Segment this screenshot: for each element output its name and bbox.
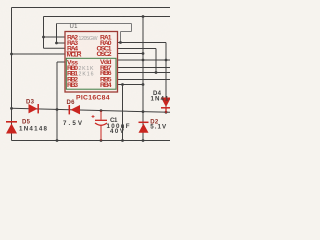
wire vertical x166 RA0 to D4: [165, 43, 167, 113]
junction ground rail at x122: [121, 139, 124, 142]
wire second top horizontal (RA2 net): [44, 16, 171, 18]
junction RA0 net dogleg: [119, 41, 122, 44]
MCLR overbar: [67, 51, 82, 53]
wire vertical x57 Vss to ground rail: [56, 62, 58, 141]
junction mid rail at Vss vertical: [56, 108, 59, 111]
wire RA3 pin: [57, 42, 66, 44]
wire Vss pin: [57, 61, 65, 63]
wire RA2 pin: [44, 36, 66, 38]
capacitor C1 symbol: [92, 111, 108, 141]
junction Vdd net at x166: [165, 59, 168, 62]
junction mid rail at C1: [100, 109, 103, 112]
zener diode D2 symbol: [139, 122, 149, 133]
wire vertical x143 (Vdd net with D2): [142, 17, 144, 141]
IC U1 body PIC16C84: [65, 32, 118, 93]
diode D4 symbol: [161, 98, 171, 114]
wire middle rail through D3 and D6: [12, 108, 171, 112]
paper texture: [0, 0, 170, 150]
junction top net at x143: [142, 15, 145, 18]
junction Vdd net at x143: [142, 59, 145, 62]
junction mid rail at D4 vertical: [165, 111, 168, 114]
wire RB5 pin row: [118, 79, 171, 81]
wire RB6 pin row: [118, 72, 171, 74]
junction ground rail at C1: [100, 139, 103, 142]
wire OSC2 pin row: [118, 53, 144, 55]
wire RA4 pin: [44, 47, 66, 49]
wire top outer horizontal: [12, 7, 171, 9]
wire OSC1 pin row: [118, 48, 157, 50]
junction ground rail at D2 vertical: [142, 139, 145, 142]
wire vertical x122 RB4 to ground rail: [122, 85, 124, 141]
pin labels right column: [97, 34, 112, 89]
wire vertical x56 RA3: [56, 24, 58, 44]
wire MCLR pin: [12, 53, 66, 55]
wire RB4 pin row: [118, 84, 144, 86]
wire left outer vertical (MCLR/GND net): [11, 8, 13, 141]
wire vertical x156 OSC1 to RB6: [155, 49, 157, 73]
junction RA3 net: [55, 42, 58, 45]
junction mid rail at D2 vertical: [142, 110, 145, 113]
wire dogleg horizontal y31: [121, 31, 132, 33]
diode D3 symbol: [29, 104, 39, 113]
IC U1 inner green port section: [66, 58, 116, 89]
wire dogleg vertical x120 to RA0: [120, 32, 122, 43]
wire RB7 pin row: [118, 67, 171, 69]
junction RA2/RA4 net: [42, 36, 45, 39]
junction RB6/OSC1 net: [155, 71, 158, 74]
junction OSC2 net: [142, 52, 145, 55]
wire bottom ground rail: [12, 140, 171, 142]
junction mid rail at left vertical: [10, 107, 13, 110]
junction RB4 net at x122: [121, 83, 124, 86]
junction ground rail at Vss vertical: [56, 139, 59, 142]
diode D6 symbol: [69, 105, 80, 114]
wire third top horizontal (RA3 net over chip): [57, 23, 132, 25]
wire vertical x43 RA2/RA4: [43, 17, 45, 49]
wire Vdd pin row: [118, 59, 171, 61]
zener diode D5 symbol: [6, 122, 17, 134]
junction RB4 net at x143: [142, 83, 145, 86]
junction MCLR net: [10, 53, 13, 56]
wire dogleg vertical x131: [131, 24, 133, 32]
pin labels left column: [67, 34, 82, 89]
wire RA0 pin row: [118, 42, 167, 44]
